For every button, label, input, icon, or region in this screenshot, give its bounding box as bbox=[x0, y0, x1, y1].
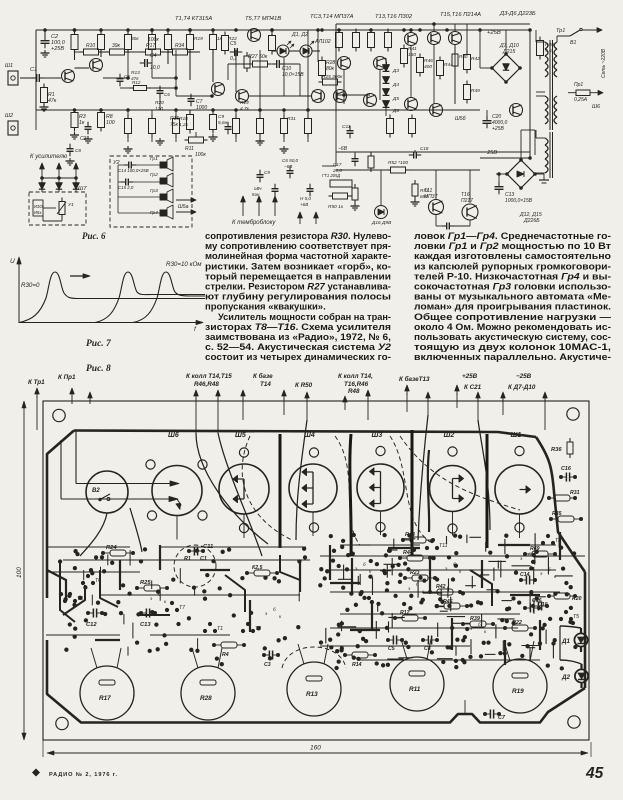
pcb power resistor circle R28 bbox=[181, 666, 235, 720]
svg-text:С9: С9 bbox=[264, 170, 270, 175]
pcb resistor R43 bbox=[410, 537, 426, 543]
pcb connector circle Ш4 bbox=[289, 464, 337, 512]
resistor R45 vertical low bbox=[387, 119, 394, 134]
svg-text:С6: С6 bbox=[164, 92, 170, 97]
svg-text:160: 160 bbox=[310, 745, 321, 752]
arrow mains top bbox=[596, 29, 602, 31]
pcb pads around Sh5 bbox=[239, 448, 248, 457]
svg-text:R46,R48: R46,R48 bbox=[194, 381, 219, 388]
graph curve second hump bbox=[95, 272, 205, 323]
svg-text:Ш2: Ш2 bbox=[5, 113, 13, 119]
transistor T16 bbox=[510, 104, 523, 117]
speaker Gr3 bbox=[160, 194, 167, 200]
pcb thick ground trace right bbox=[584, 572, 587, 688]
pcb thick route left3 bbox=[100, 570, 118, 607]
resistor R18 vertical lower bbox=[210, 115, 217, 130]
LED D1 AL102 bbox=[277, 45, 289, 57]
svg-text:С7: С7 bbox=[498, 715, 506, 721]
pcb contacts in Ш2 bbox=[453, 478, 464, 480]
svg-text:Д1: Д1 bbox=[561, 638, 570, 645]
fuse Pr1 0,25A bbox=[576, 90, 590, 96]
transistor T16 output lower bbox=[462, 204, 478, 220]
svg-text:С3: С3 bbox=[80, 136, 87, 142]
svg-text:150: 150 bbox=[408, 52, 416, 58]
svg-text:R24: R24 bbox=[240, 100, 249, 106]
resistor bank row2 R31..R38 vertical bbox=[125, 119, 132, 134]
U1 internals lamp box bbox=[33, 200, 43, 216]
transformer core lines bbox=[549, 40, 551, 130]
wire LED chain bbox=[272, 50, 277, 52]
wire feedback loop around T5 bbox=[228, 63, 252, 65]
svg-text:Д5: Д5 bbox=[392, 96, 399, 102]
resistor R49 vertical low bbox=[464, 85, 471, 100]
transistor T14 bbox=[405, 98, 418, 111]
wire stage3 bbox=[300, 95, 311, 97]
transistor T11 bbox=[428, 32, 441, 45]
svg-text:R20: R20 bbox=[155, 100, 164, 106]
resistor R12a horizontal bbox=[134, 86, 147, 91]
wire bridge2 transformer link bbox=[534, 130, 536, 155]
wire node y52 left bbox=[75, 51, 84, 53]
wire +25V node bbox=[455, 29, 530, 31]
pcb thick ground trace right upper curve bbox=[536, 437, 585, 572]
svg-text:R13: R13 bbox=[306, 691, 318, 698]
resistor R28 80k bbox=[319, 61, 326, 76]
transistor T12 bbox=[449, 32, 462, 45]
resistor R35 vertical bbox=[368, 33, 375, 48]
capacitor C2 100,0x25B bbox=[44, 30, 46, 38]
wire 455 stub bbox=[454, 44, 456, 54]
resistor R33 vertical bbox=[353, 33, 360, 48]
svg-text:К темброблоку: К темброблоку bbox=[232, 220, 276, 226]
pcb connector circle Ш3 bbox=[357, 464, 404, 511]
pcb lead-in arrows bbox=[36, 391, 38, 399]
LED D2 AL102 bbox=[300, 45, 312, 57]
wire t5 base bbox=[159, 97, 161, 110]
svg-text:Ш2: Ш2 bbox=[444, 432, 455, 439]
svg-text:R44: R44 bbox=[403, 550, 413, 556]
svg-text:К колл Т14,: К колл Т14, bbox=[338, 373, 373, 380]
wire -6V feed bbox=[335, 152, 337, 166]
resistor R55 vertical bbox=[352, 188, 358, 200]
wire output emitters bbox=[343, 70, 345, 104]
svg-text:R10: R10 bbox=[86, 43, 95, 49]
speaker Gr1 bbox=[160, 162, 167, 168]
pcb pads around Sh6 bbox=[146, 460, 155, 469]
svg-text:R48: R48 bbox=[348, 388, 360, 395]
pcb transistor T11 cluster bbox=[430, 539, 434, 543]
U1 potentiometer bbox=[59, 202, 65, 215]
svg-text:Д226Б: Д226Б bbox=[523, 218, 540, 224]
pcb wire below Ш4 bbox=[312, 512, 314, 536]
pcb horizontal trace bus 4 bbox=[100, 594, 300, 596]
LED arrows D1 bbox=[287, 41, 291, 45]
ground mid rail bbox=[159, 138, 161, 141]
svg-text:Рис. 7: Рис. 7 bbox=[86, 339, 112, 349]
svg-text:R20: R20 bbox=[572, 596, 582, 602]
svg-text:47к: 47к bbox=[48, 98, 57, 104]
pcb thick ground trace bottom bbox=[47, 640, 585, 723]
svg-text:+25В: +25В bbox=[51, 46, 64, 52]
svg-text:R46: R46 bbox=[424, 58, 433, 64]
pcb thick ground trace top bbox=[74, 431, 536, 438]
junction dots on rails bbox=[43, 28, 47, 32]
wire verticals row1 to transistors bbox=[127, 50, 129, 78]
resistor R23 potentiometer horizontal with arrow bbox=[189, 137, 204, 143]
svg-text:включенных параллельно. Акусти: включенных параллельно. Акустиче- bbox=[414, 352, 611, 363]
svg-text:С12: С12 bbox=[86, 622, 97, 628]
capacitor C13 1000,0 filter bbox=[495, 186, 504, 188]
pcb mounting hole top-left bbox=[53, 409, 65, 421]
pcb horizontal trace bus 6 right bbox=[320, 555, 585, 557]
pcb pads around Sh3 bbox=[376, 446, 385, 455]
svg-text:R42: R42 bbox=[471, 56, 480, 62]
pcb transistor T2 cluster bbox=[246, 622, 250, 626]
capacitor C11 bottom of stage bbox=[347, 130, 354, 132]
pcb resistor R36 right bbox=[567, 442, 573, 454]
wire y52 bus bbox=[98, 51, 110, 53]
svg-text:С4: С4 bbox=[150, 53, 157, 59]
pcb contacts in Ш4 bbox=[302, 471, 313, 473]
resistor R36 vertical bbox=[385, 33, 392, 48]
resistor R23a vertical bbox=[244, 56, 250, 68]
LED arrows D2 bbox=[310, 41, 314, 45]
wire stage couplers y96 bbox=[176, 95, 212, 97]
resistor R3 emitter bbox=[71, 113, 78, 128]
svg-text:К усилителю: К усилителю bbox=[30, 154, 68, 160]
pcb resistor R4 bbox=[221, 642, 237, 648]
capacitor C1 input coupling bbox=[20, 77, 34, 79]
capacitor C3 bypass bbox=[85, 126, 92, 128]
svg-text:б: б bbox=[478, 622, 481, 627]
svg-text:10,0×15В: 10,0×15В bbox=[282, 72, 304, 78]
svg-text:120: 120 bbox=[155, 106, 163, 112]
pcb arrow wire into Sh6 upper bbox=[76, 483, 172, 485]
svg-text:П217: П217 bbox=[461, 198, 473, 204]
resistor R5 vertical bbox=[71, 35, 78, 50]
svg-text:R41: R41 bbox=[408, 46, 417, 52]
U1 wiring bbox=[43, 207, 56, 209]
pcb pads around Sh4 bbox=[309, 448, 318, 457]
svg-text:Ш3: Ш3 bbox=[372, 432, 383, 439]
pcb dimension line vertical 100 bbox=[23, 401, 25, 740]
pcb resistor R42 bbox=[437, 589, 453, 595]
svg-text:+25В: +25В bbox=[487, 30, 501, 36]
svg-text:1000,0×15В: 1000,0×15В bbox=[505, 198, 533, 204]
svg-text:У1: У1 bbox=[68, 202, 74, 208]
svg-text:б: б bbox=[416, 582, 419, 587]
resistor R25 300k horizontal bbox=[323, 79, 338, 85]
svg-text:К колл Т14,Т15: К колл Т14,Т15 bbox=[186, 373, 232, 380]
svg-text:И6х: И6х bbox=[34, 210, 42, 215]
svg-text:R25 300к: R25 300к bbox=[322, 74, 343, 80]
diode inside bridge1 bbox=[503, 64, 509, 70]
pcb power resistor circle R19 bbox=[493, 659, 547, 713]
pcb long route from K baze T14 bbox=[218, 433, 262, 556]
wire top rail right section bbox=[455, 29, 530, 31]
svg-text:R13: R13 bbox=[131, 70, 140, 76]
pcb resistor R44 bbox=[407, 555, 423, 561]
ground under R3 bbox=[74, 132, 76, 135]
pcb dashed circle R1 C1 bbox=[174, 545, 216, 587]
svg-text:5,6н: 5,6н bbox=[218, 120, 228, 126]
pcb capacitor C12 bbox=[92, 609, 94, 618]
pcb resistor R35 right bbox=[558, 516, 574, 522]
svg-text:R28: R28 bbox=[200, 695, 212, 702]
pcb thick route center-left bbox=[280, 555, 300, 580]
svg-text:Д3-Д6 Д223Б: Д3-Д6 Д223Б bbox=[499, 11, 536, 17]
svg-text:100: 100 bbox=[16, 567, 23, 578]
wires to amplifier with arrows bbox=[41, 163, 43, 192]
svg-text:Ш5б: Ш5б bbox=[455, 116, 467, 122]
pcb thick vertical route Sh2 partial bbox=[428, 450, 429, 532]
pcb transistor T1 cluster bbox=[208, 622, 212, 626]
wire -25V rail bbox=[480, 157, 530, 159]
svg-text:45: 45 bbox=[585, 765, 604, 782]
pcb diode D1 right edge bbox=[574, 633, 587, 646]
svg-text:РАДИО № 2, 1976 г.: РАДИО № 2, 1976 г. bbox=[49, 772, 118, 778]
indicator diodes on links bbox=[39, 183, 45, 189]
svg-text:−25В: −25В bbox=[516, 373, 532, 380]
pcb resistor R23 bbox=[412, 575, 428, 581]
transistor T5 bbox=[212, 83, 225, 96]
pcb wire bottom right jog bbox=[464, 700, 466, 714]
pcb capacitor C16 mid bbox=[537, 602, 539, 611]
pcb outer board outline bbox=[43, 401, 589, 740]
pcb thick ground trace left bbox=[47, 431, 74, 599]
resistor R53 vertical bbox=[368, 156, 374, 168]
pcb capacitor C3 bbox=[268, 651, 270, 660]
pcb contacts in Ш5 bbox=[233, 478, 244, 480]
svg-text:Т5,Т7 МП41В: Т5,Т7 МП41В bbox=[245, 16, 281, 22]
svg-text:20,0: 20,0 bbox=[332, 168, 342, 173]
svg-text:С3: С3 bbox=[264, 662, 271, 668]
diode inside bridge2 bbox=[517, 171, 524, 177]
pcb resistor R31 right bbox=[554, 495, 570, 501]
resistor R7 vertical bbox=[98, 35, 105, 50]
svg-text:400: 400 bbox=[424, 64, 432, 70]
svg-text:80к: 80к bbox=[326, 66, 335, 72]
transistor T7 bbox=[334, 90, 347, 103]
svg-text:Т16,R46: Т16,R46 bbox=[344, 381, 369, 388]
svg-text:Ш1: Ш1 bbox=[5, 63, 13, 69]
pcb horizontal trace bus 1 bbox=[46, 546, 130, 548]
svg-text:R19: R19 bbox=[194, 36, 203, 42]
svg-text:К С21: К С21 bbox=[464, 384, 482, 391]
transistor T8 bbox=[338, 57, 351, 70]
capacitor C15 2,0 crossover bbox=[125, 179, 127, 186]
pcb resistor R14 bbox=[352, 652, 368, 658]
wire mid rail y110 bbox=[36, 109, 340, 111]
svg-text:С6 50,0: С6 50,0 bbox=[282, 158, 299, 163]
capacitor C20 4000,0 filter bbox=[483, 120, 492, 122]
capacitor C7b vertical bbox=[257, 174, 264, 176]
svg-text:С11: С11 bbox=[342, 124, 351, 130]
resistor R21 vertical bbox=[210, 35, 217, 50]
svg-text:R49: R49 bbox=[471, 88, 480, 94]
svg-text:С1: С1 bbox=[200, 556, 207, 562]
svg-text:Гр3: Гр3 bbox=[150, 188, 158, 194]
svg-text:Тр1: Тр1 bbox=[556, 28, 565, 34]
resistor R19 vertical bbox=[187, 35, 194, 50]
svg-text:С18: С18 bbox=[420, 146, 429, 151]
svg-text:R25: R25 bbox=[140, 580, 151, 586]
pcb wire drop to V2 lower bbox=[60, 440, 62, 499]
pcb junction pads scatter bbox=[139, 559, 143, 563]
svg-text:С15 2,0: С15 2,0 bbox=[118, 185, 134, 190]
svg-text:Д4: Д4 bbox=[392, 82, 399, 88]
wire main +25V top rail bbox=[36, 29, 455, 31]
svg-text:R52 *100: R52 *100 bbox=[388, 160, 408, 166]
resistor R41 150 vertical bbox=[401, 49, 408, 64]
pcb dashed route around Sh4 right bbox=[335, 436, 360, 545]
svg-text:С17: С17 bbox=[333, 162, 342, 167]
svg-text:100к: 100к bbox=[148, 37, 159, 43]
pcb thick vertical route between Sh6 Sh5 bbox=[279, 434, 282, 548]
svg-text:Т1: Т1 bbox=[217, 626, 223, 632]
pcb horizontal trace y545 right bbox=[340, 544, 420, 546]
svg-text:Т15,Т16 П214А: Т15,Т16 П214А bbox=[440, 12, 481, 18]
arrow Sh5a out1 bbox=[176, 199, 196, 201]
svg-text:+25В: +25В bbox=[492, 126, 504, 132]
capacitor C7 1000 bbox=[188, 98, 195, 100]
pcb arrow wire into Sh6 lower bbox=[61, 498, 171, 500]
svg-text:б: б bbox=[158, 592, 161, 597]
pcb capacitor C13 bbox=[145, 609, 147, 618]
svg-text:0,25А: 0,25А bbox=[574, 97, 588, 103]
svg-text:30к: 30к bbox=[131, 36, 139, 42]
pcb pads around Sh1 bbox=[515, 446, 524, 455]
pcb horizontal trace bus 7 right bbox=[330, 591, 560, 593]
capacitor C6 50,0 -6V bbox=[287, 170, 294, 172]
wire bottom right of schematic bbox=[435, 215, 437, 226]
footer diamond bbox=[33, 769, 40, 776]
transistor T6 bbox=[312, 90, 325, 103]
svg-text:R24: R24 bbox=[106, 545, 117, 551]
svg-text:75к: 75к bbox=[170, 122, 179, 128]
pcb resistor R24 bbox=[110, 550, 126, 556]
capacitor C4 10,0 bbox=[144, 59, 146, 67]
svg-text:АЛ102: АЛ102 bbox=[314, 39, 331, 45]
pcb angular thick route center bbox=[225, 575, 245, 612]
resistor R27 50k horizontal bbox=[253, 61, 268, 67]
wire left rail vertical bbox=[35, 30, 37, 110]
wire amplifier right bus x530 bbox=[529, 30, 531, 158]
wire tertiary leads bbox=[536, 137, 545, 139]
svg-text:1к: 1к bbox=[79, 120, 85, 126]
pcb contacts in Ш3 bbox=[370, 471, 381, 473]
pcb bent arrow inside Sh6 bbox=[177, 499, 181, 508]
svg-text:Н 5,0: Н 5,0 bbox=[300, 196, 311, 201]
resistor R4 vertical bbox=[98, 113, 105, 128]
svg-text:Ш6: Ш6 bbox=[168, 432, 179, 439]
pcb mounting hole bottom-left bbox=[56, 717, 68, 729]
svg-text:К Пр1: К Пр1 bbox=[58, 374, 76, 381]
svg-text:С10: С10 bbox=[538, 602, 548, 608]
pcb thick route left4 bbox=[140, 614, 170, 616]
pcb horizontal trace bus 8b right bbox=[330, 627, 518, 629]
resistor R54 vertical bbox=[412, 184, 418, 196]
graph axis X with arrow bbox=[19, 322, 198, 324]
svg-text:U: U bbox=[10, 258, 15, 265]
svg-text:R27 50к: R27 50к bbox=[248, 54, 268, 60]
pcb transistor T5 cluster right bbox=[564, 610, 568, 614]
pcb horizontal trace bus 10 right bbox=[360, 659, 540, 661]
svg-text:С5: С5 bbox=[388, 646, 395, 652]
pcb power resistor circle R11 bbox=[390, 657, 444, 711]
svg-text:R50 1к: R50 1к bbox=[328, 204, 344, 210]
pcb wire below Ш5 bbox=[243, 514, 245, 538]
wire mid rail extension right bbox=[340, 109, 480, 111]
svg-text:R14: R14 bbox=[352, 662, 362, 668]
transistor T3 top bbox=[248, 29, 261, 42]
svg-text:К Тр1: К Тр1 bbox=[28, 379, 45, 386]
pcb switch V2 lever bbox=[98, 498, 101, 501]
arrows to tone block bbox=[242, 196, 244, 216]
pcb horizontal trace bus 5 bbox=[46, 634, 120, 636]
svg-text:Д6: Д6 bbox=[392, 108, 399, 114]
pcb thick vertical route between Sh4 Sh3 bbox=[350, 434, 351, 556]
jack socket Sh1 bbox=[8, 71, 18, 85]
svg-text:47к: 47к bbox=[131, 76, 139, 82]
pcb angular thick route left bbox=[63, 585, 85, 615]
svg-text:К базеТ13: К базеТ13 bbox=[399, 375, 430, 383]
pcb power resistor circle R13 bbox=[287, 662, 341, 716]
capacitor C18 bbox=[413, 152, 415, 159]
pcb wire below Ш1 bbox=[519, 514, 521, 538]
svg-text:С8: С8 bbox=[75, 148, 81, 153]
pcb resistor R45 bbox=[444, 603, 460, 609]
pcb connector circle Ш1 bbox=[495, 465, 544, 514]
svg-text:+6В: +6В bbox=[300, 202, 308, 207]
pcb horizontal trace bus 6b right bbox=[326, 569, 556, 571]
transistor T13 bbox=[364, 94, 377, 107]
svg-text:R1: R1 bbox=[184, 556, 191, 562]
wire bridge2 leads bbox=[520, 130, 522, 160]
svg-text:R44: R44 bbox=[444, 62, 453, 68]
svg-text:Т1,Т4 КТ315А: Т1,Т4 КТ315А bbox=[175, 16, 212, 22]
resistor R20a vertical bbox=[222, 36, 229, 51]
svg-text:б: б bbox=[453, 562, 456, 567]
svg-text:б: б bbox=[548, 567, 551, 572]
speaker Gr4 bbox=[160, 210, 167, 216]
svg-text:Д16 Д9В: Д16 Д9В bbox=[371, 220, 392, 226]
capacitor C8 polarized bbox=[307, 188, 314, 190]
svg-text:R18: R18 bbox=[179, 116, 188, 122]
pcb capacitor C8 bbox=[427, 636, 429, 645]
capacitor C19 at output bbox=[446, 223, 448, 230]
pcb resistor R39 bbox=[470, 621, 486, 627]
pcb dashed route around Sh3 bbox=[390, 436, 430, 542]
resistor R16b vertical mid bbox=[165, 35, 172, 50]
capacitor C10 10,0x15V bbox=[276, 60, 278, 68]
svg-text:состоит из четырех динамически: состоит из четырех динамических го- bbox=[205, 352, 391, 363]
dashed unit U2 acoustic box bbox=[110, 156, 192, 227]
svg-text:С14: С14 bbox=[520, 572, 530, 578]
wire bridge1 leads bbox=[505, 30, 507, 54]
svg-text:В1: В1 bbox=[570, 40, 576, 46]
pcb capacitor C16 right bbox=[565, 473, 567, 482]
pcb transistor T7 cluster bbox=[170, 601, 174, 605]
capacitor C5 0,1 coupling bbox=[234, 48, 236, 56]
pcb wire drop to V2 upper bbox=[75, 430, 77, 484]
capacitor C17 vertical bbox=[352, 158, 359, 160]
svg-text:Т5: Т5 bbox=[573, 614, 579, 620]
pcb resistor R25 bbox=[144, 585, 160, 591]
svg-text:100: 100 bbox=[106, 120, 115, 126]
dashed unit U1 box bbox=[29, 192, 86, 225]
graph curve third hump bbox=[133, 272, 205, 323]
